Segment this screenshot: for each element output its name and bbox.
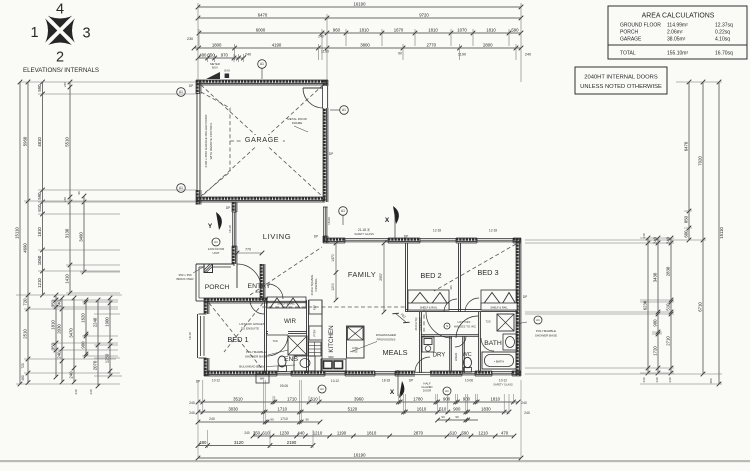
right col 5	[698, 80, 706, 377]
bed2 door arc	[444, 299, 457, 312]
svg-text:1610: 1610	[417, 406, 427, 411]
svg-text:GARAGE: GARAGE	[245, 135, 279, 144]
svg-text:TO ENSUITE: TO ENSUITE	[241, 327, 259, 331]
wall wir/ens	[266, 332, 307, 334]
svg-text:GROUND FLOOR: GROUND FLOOR	[620, 23, 661, 29]
marker A1 door unit	[212, 238, 220, 246]
svg-text:LINEN: LINEN	[454, 353, 458, 361]
svg-text:UNIT: UNIT	[213, 251, 220, 255]
dim row 3	[197, 27, 524, 35]
svg-text:16190: 16190	[354, 1, 367, 6]
svg-text:1830: 1830	[481, 406, 491, 411]
svg-text:240: 240	[318, 35, 324, 39]
svg-text:720: 720	[21, 363, 25, 369]
svg-text:38.05m²: 38.05m²	[667, 37, 686, 43]
svg-text:240: 240	[668, 377, 672, 382]
kitchen bench	[309, 300, 322, 371]
right col 4	[684, 80, 692, 243]
garage centre dashed tie	[230, 140, 285, 142]
svg-text:2.06m²: 2.06m²	[667, 30, 683, 36]
svg-text:SAFETY GLASS: SAFETY GLASS	[354, 232, 374, 236]
svg-text:2770: 2770	[426, 42, 436, 47]
brick pier 350x350	[204, 264, 213, 273]
garage bottom wall	[196, 197, 325, 202]
wall	[388, 238, 420, 243]
marker A1 west upper	[177, 88, 186, 97]
right col 1	[643, 236, 651, 376]
svg-text:960: 960	[333, 27, 341, 32]
svg-text:2030: 2030	[57, 324, 62, 334]
svg-text:Y: Y	[208, 223, 213, 230]
svg-text:TOTAL: TOTAL	[620, 51, 636, 57]
svg-text:1190: 1190	[458, 53, 466, 57]
svg-text:18-18: 18-18	[228, 225, 232, 233]
svg-text:X: X	[385, 217, 390, 224]
svg-text:3490: 3490	[79, 232, 84, 242]
svg-text:240: 240	[655, 377, 659, 382]
svg-text:10-12: 10-12	[331, 379, 339, 383]
marker A1 shower	[534, 316, 542, 324]
svg-text:5510: 5510	[65, 137, 70, 147]
marker A1 west lower	[177, 184, 186, 193]
garage left wall lower	[196, 190, 201, 205]
svg-text:350: 350	[51, 342, 56, 350]
svg-text:2710: 2710	[666, 336, 671, 346]
svg-text:610: 610	[37, 204, 42, 212]
svg-text:6470: 6470	[684, 141, 689, 151]
svg-text:350: 350	[208, 52, 216, 57]
svg-text:1: 1	[30, 25, 38, 41]
wall	[513, 238, 521, 243]
window 18-09 living east	[323, 207, 328, 236]
svg-text:300: 300	[449, 285, 453, 290]
right extension lines	[676, 81, 722, 83]
laundry trough and machine	[422, 337, 434, 352]
wir north wall	[266, 301, 307, 302]
svg-text:4.10sq: 4.10sq	[715, 37, 730, 43]
svg-text:240: 240	[524, 411, 530, 415]
svg-text:90: 90	[441, 415, 445, 419]
kitchen island bench	[347, 326, 365, 358]
svg-text:1810: 1810	[428, 27, 438, 32]
svg-text:3120: 3120	[234, 440, 244, 445]
living left wall lower	[232, 246, 237, 264]
dim row total top	[196, 1, 524, 9]
svg-text:BED 2: BED 2	[420, 271, 441, 280]
svg-text:16190: 16190	[354, 452, 367, 457]
svg-text:18-18: 18-18	[188, 332, 192, 340]
svg-text:1810: 1810	[367, 430, 377, 435]
svg-text:2870: 2870	[414, 430, 424, 435]
ens vanity and wc	[278, 356, 315, 372]
svg-text:1670: 1670	[394, 27, 404, 32]
hall/laundry wall	[421, 335, 479, 337]
svg-text:2510: 2510	[23, 329, 28, 339]
svg-text:2040HT INTERNAL DOORS: 2040HT INTERNAL DOORS	[584, 75, 658, 81]
wall	[456, 238, 477, 243]
internal doors note box	[575, 67, 667, 94]
svg-text:DRY: DRY	[433, 353, 446, 359]
window 21-18 family	[345, 238, 388, 243]
svg-text:240: 240	[57, 299, 62, 307]
wall	[475, 371, 492, 376]
svg-text:HINGES TO WC: HINGES TO WC	[454, 325, 477, 329]
svg-text:6470: 6470	[258, 12, 268, 17]
wall bed2/bed3	[459, 243, 461, 312]
svg-text:90: 90	[305, 418, 309, 422]
family top wall	[323, 238, 345, 243]
wc toilet	[464, 357, 472, 372]
svg-text:240: 240	[525, 53, 531, 57]
kitchen bulkhead dashed	[262, 306, 428, 308]
svg-text:1810: 1810	[486, 27, 496, 32]
svg-text:4810: 4810	[37, 137, 42, 147]
wall dry/linen	[450, 336, 452, 373]
svg-text:A1: A1	[260, 62, 264, 66]
svg-text:PROVISIONS: PROVISIONS	[377, 338, 396, 342]
svg-text:900: 900	[443, 396, 451, 401]
wall	[323, 236, 328, 243]
svg-text:1210: 1210	[313, 430, 323, 435]
marker S	[444, 323, 450, 329]
svg-text:DISHWASHER: DISHWASHER	[376, 333, 397, 337]
ens door opening	[268, 331, 288, 335]
svg-text:AREA CALCULATIONS: AREA CALCULATIONS	[642, 13, 715, 20]
svg-text:GAS: GAS	[224, 69, 230, 73]
svg-text:2190: 2190	[287, 440, 297, 445]
garage roller door	[196, 94, 198, 190]
svg-text:114.99m²: 114.99m²	[667, 23, 688, 29]
ens door arc	[267, 335, 288, 356]
entry east wall	[260, 264, 265, 300]
bath shower	[497, 314, 514, 331]
svg-text:590: 590	[37, 192, 42, 200]
svg-text:1900: 1900	[105, 317, 110, 327]
svg-text:WIR: WIR	[284, 318, 297, 325]
svg-text:510: 510	[666, 303, 671, 311]
svg-text:1800: 1800	[212, 42, 222, 47]
svg-text:7920: 7920	[698, 156, 703, 166]
left col 9	[81, 298, 89, 359]
svg-text:OPENING: OPENING	[314, 279, 318, 292]
svg-text:POLYMARBLE: POLYMARBLE	[246, 350, 266, 354]
svg-text:480: 480	[199, 52, 207, 57]
half glazed door opening	[415, 371, 430, 373]
left col 6	[51, 293, 59, 380]
svg-text:A1: A1	[341, 209, 345, 213]
svg-text:4190: 4190	[272, 42, 282, 47]
right col total	[717, 80, 725, 387]
svg-text:1810: 1810	[51, 320, 56, 330]
svg-text:3800: 3800	[360, 42, 370, 47]
svg-text:1780: 1780	[413, 396, 423, 401]
svg-text:240: 240	[69, 371, 74, 379]
svg-text:1190: 1190	[337, 430, 347, 435]
meals opening dashed	[423, 308, 425, 336]
svg-text:FAMILY: FAMILY	[348, 270, 376, 279]
svg-text:BATH: BATH	[484, 340, 502, 347]
svg-text:5120: 5120	[348, 406, 358, 411]
svg-text:240: 240	[245, 53, 251, 57]
svg-text:2100 x 4810 GARAGE ROLLER DOOR: 2100 x 4810 GARAGE ROLLER DOOR	[204, 114, 208, 168]
dim 770	[237, 252, 262, 254]
svg-text:DP: DP	[523, 295, 527, 299]
bed3 robe	[481, 290, 517, 310]
wall meals/dry	[420, 312, 422, 373]
wall wir-ens/kitchen	[307, 300, 309, 373]
bottom row 1	[196, 396, 521, 404]
svg-text:REF: REF	[313, 304, 317, 310]
svg-text:BRICK PIER: BRICK PIER	[176, 277, 194, 281]
window 10-06 wc	[462, 371, 475, 376]
window 10-12 bath	[492, 371, 512, 376]
hall door arcs	[426, 312, 452, 338]
svg-text:350: 350	[51, 299, 56, 307]
svg-text:GARAGE: GARAGE	[620, 37, 642, 43]
wall	[395, 371, 415, 376]
bed1 west wall lower	[204, 358, 209, 376]
svg-text:480: 480	[199, 440, 207, 445]
bed2 robe	[408, 290, 449, 310]
svg-text:DP: DP	[404, 235, 408, 239]
bottom row 3	[196, 415, 478, 424]
svg-text:BOX: BOX	[212, 66, 218, 70]
svg-text:610: 610	[262, 430, 270, 435]
svg-text:A1: A1	[179, 186, 183, 190]
svg-text:720: 720	[272, 339, 277, 343]
svg-text:MEALS: MEALS	[382, 348, 407, 357]
left col 2	[23, 80, 31, 385]
top extension lines	[197, 3, 199, 80]
svg-text:155.10m²: 155.10m²	[667, 51, 688, 57]
svg-text:12-18: 12-18	[489, 229, 497, 233]
svg-text:LIVING: LIVING	[263, 232, 292, 241]
left col 5	[79, 194, 87, 275]
svg-text:1710: 1710	[287, 396, 297, 401]
left extension lines	[20, 81, 196, 83]
svg-text:1200: 1200	[331, 283, 335, 291]
svg-text:240: 240	[89, 389, 93, 394]
svg-text:KITCHEN: KITCHEN	[328, 325, 335, 352]
hall south of robes	[406, 310, 518, 312]
garage right wall	[323, 80, 328, 202]
svg-text:1210: 1210	[37, 278, 42, 288]
wir shelf and rail	[267, 297, 306, 308]
svg-text:240: 240	[244, 431, 250, 435]
svg-text:PORCH: PORCH	[620, 30, 638, 36]
svg-text:5960: 5960	[23, 136, 28, 146]
svg-text:1620: 1620	[81, 313, 86, 323]
garage left wall upper	[196, 80, 201, 94]
svg-text:590: 590	[511, 27, 519, 32]
bed3 door arc	[465, 298, 479, 312]
svg-text:900: 900	[81, 341, 86, 349]
left col 11	[105, 296, 113, 379]
svg-text:A1: A1	[445, 389, 449, 393]
marker A1 east garage	[340, 106, 349, 115]
svg-text:ENTRY: ENTRY	[248, 283, 271, 290]
area calculations table	[608, 6, 747, 59]
bed1 bay window	[198, 314, 207, 358]
svg-text:850: 850	[684, 215, 689, 223]
svg-text:BED 3: BED 3	[477, 268, 498, 277]
svg-text:1410: 1410	[65, 274, 70, 284]
ens wm box	[256, 374, 269, 383]
marker A1 north	[258, 60, 267, 69]
svg-text:1210: 1210	[478, 430, 488, 435]
svg-text:10-12: 10-12	[212, 379, 220, 383]
svg-text:720: 720	[23, 298, 28, 306]
svg-text:10-06: 10-06	[465, 379, 473, 383]
svg-text:240: 240	[189, 401, 195, 405]
bed1 dashed diagonal 1	[209, 303, 263, 370]
bottom row 5	[196, 440, 316, 448]
marker A1 kitchen window	[318, 385, 326, 393]
svg-text:LIFT OFF: LIFT OFF	[458, 320, 471, 324]
svg-text:A1: A1	[536, 318, 540, 322]
meals rear door arc	[415, 357, 430, 372]
svg-text:DP: DP	[226, 206, 230, 210]
svg-text:10-12: 10-12	[499, 379, 507, 383]
svg-text:16.70sq: 16.70sq	[715, 51, 733, 57]
svg-text:600: 600	[684, 230, 689, 238]
bottom row 2	[196, 406, 512, 414]
entry door unit	[233, 264, 235, 266]
wall	[512, 371, 521, 376]
window 18-18 living	[232, 212, 237, 246]
family internal dims	[331, 241, 386, 315]
svg-text:1710: 1710	[280, 417, 288, 421]
svg-text:240: 240	[642, 377, 646, 382]
wall linen/wc	[463, 336, 465, 373]
svg-text:SHELF & RAIL: SHELF & RAIL	[420, 305, 438, 309]
svg-text:ENS: ENS	[284, 356, 298, 363]
svg-text:18-18: 18-18	[382, 379, 390, 383]
svg-text:WM: WM	[260, 377, 265, 381]
bottom row total	[196, 452, 524, 460]
entry square opening dashed	[250, 247, 322, 295]
svg-text:4690: 4690	[23, 243, 28, 253]
svg-text:510: 510	[311, 396, 319, 401]
wall family/bed2	[406, 243, 408, 312]
svg-text:2070: 2070	[93, 360, 98, 370]
living left wall upper	[232, 202, 237, 212]
svg-text:A1: A1	[179, 90, 183, 94]
svg-text:2: 2	[56, 50, 64, 66]
elevation star symbol	[41, 11, 80, 50]
svg-text:WITH REMOTE CONTROL: WITH REMOTE CONTROL	[209, 122, 213, 159]
svg-text:OPENING: OPENING	[418, 318, 422, 331]
svg-text:15110: 15110	[15, 227, 20, 239]
left col 7	[57, 296, 65, 385]
svg-text:590: 590	[37, 84, 42, 92]
svg-text:3: 3	[82, 26, 90, 42]
scan edge artifact	[0, 460, 750, 462]
svg-text:SINK: SINK	[328, 356, 334, 359]
svg-text:1070: 1070	[457, 27, 467, 32]
bottom row 4	[251, 430, 517, 438]
window 12-18 bed3	[477, 238, 513, 243]
svg-text:4: 4	[56, 2, 64, 18]
garage cross dashed brace 1	[201, 85, 323, 197]
garage personnel door swing	[303, 88, 323, 108]
svg-text:3130: 3130	[65, 228, 70, 238]
left col 3	[37, 80, 45, 298]
svg-text:900: 900	[453, 406, 461, 411]
wall	[430, 371, 462, 376]
svg-text:350: 350	[253, 430, 261, 435]
svg-text:2957: 2957	[379, 273, 383, 281]
svg-text:240: 240	[642, 233, 646, 238]
svg-text:440: 440	[297, 430, 305, 435]
svg-text:230: 230	[187, 37, 193, 41]
window 18-18 meals	[375, 371, 395, 376]
svg-text:21-18 Ⓐ: 21-18 Ⓐ	[358, 227, 371, 232]
svg-text:1810: 1810	[491, 396, 501, 401]
bed1 west wall upper	[204, 298, 209, 314]
svg-text:1710: 1710	[278, 406, 288, 411]
svg-text:12-18: 12-18	[433, 229, 441, 233]
svg-text:SHELF & RAIL: SHELF & RAIL	[277, 302, 295, 306]
bath vanity	[503, 334, 517, 350]
svg-text:UNLESS NOTED OTHERWISE: UNLESS NOTED OTHERWISE	[580, 84, 662, 90]
svg-text:A1: A1	[214, 240, 218, 244]
window 10-12 kitchen	[325, 371, 345, 376]
left col total	[15, 80, 23, 387]
svg-text:X: X	[390, 389, 395, 396]
svg-text:DP: DP	[189, 84, 193, 88]
svg-text:A1: A1	[320, 387, 324, 391]
svg-text:6230: 6230	[643, 300, 648, 310]
bed1 door arc	[250, 300, 264, 314]
svg-text:12.37sq: 12.37sq	[715, 23, 733, 29]
window 12-18 bed2	[420, 238, 456, 243]
svg-text:240: 240	[521, 401, 527, 405]
svg-text:SAFETY GLASS: SAFETY GLASS	[493, 383, 513, 387]
svg-text:SHOWER BASE: SHOWER BASE	[245, 355, 267, 359]
garage metal door opening	[322, 86, 328, 108]
marker A1 rear door	[443, 387, 451, 395]
window 09-06 ens	[277, 371, 291, 376]
svg-text:BULKHEAD BEAM: BULKHEAD BEAM	[239, 365, 265, 369]
roller door dashed outline	[201, 92, 230, 196]
bed3 dashed diagonal	[434, 244, 516, 291]
svg-text:720: 720	[485, 320, 490, 324]
dim 792 angled	[392, 308, 411, 326]
left col 4	[65, 80, 73, 296]
right col 2	[653, 236, 661, 376]
svg-text:LIFT OFF HINGES: LIFT OFF HINGES	[239, 322, 264, 326]
ens shower	[288, 336, 307, 355]
svg-text:510: 510	[439, 406, 447, 411]
svg-text:6710: 6710	[698, 302, 703, 312]
svg-text:900: 900	[653, 319, 658, 327]
svg-text:90: 90	[455, 415, 459, 419]
svg-text:15110: 15110	[719, 227, 724, 239]
svg-text:18-09: 18-09	[327, 217, 331, 225]
svg-text:3470: 3470	[69, 328, 74, 338]
svg-text:1720: 1720	[653, 346, 658, 356]
svg-text:3030: 3030	[228, 406, 238, 411]
right col 3	[666, 236, 674, 376]
bed1 dashed diagonal 2	[224, 303, 263, 352]
svg-text:FRAME: FRAME	[292, 121, 303, 125]
garage cross dashed brace 2	[201, 85, 323, 197]
bath tub	[482, 352, 516, 369]
svg-text:3510: 3510	[233, 396, 243, 401]
svg-text:1230: 1230	[280, 430, 290, 435]
garage top wall	[196, 80, 328, 85]
